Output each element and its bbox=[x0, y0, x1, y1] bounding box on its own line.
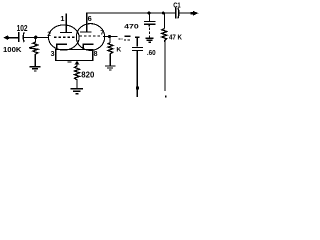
V2 cathode bbox=[83, 44, 93, 49]
svg-text:2: 2 bbox=[47, 31, 51, 38]
node rail / 47K bbox=[162, 12, 165, 15]
wire input to coupling cap bbox=[7, 37, 18, 39]
node input junction bbox=[34, 36, 37, 39]
node on bottom wire bbox=[136, 86, 139, 89]
capacitor C-in (plates) bbox=[19, 32, 25, 42]
svg-text:47 K: 47 K bbox=[169, 34, 182, 41]
svg-text:.60: .60 bbox=[147, 48, 156, 57]
wire C1 to output bbox=[179, 12, 193, 14]
resistor 47K bbox=[162, 29, 167, 43]
end dot bbox=[165, 96, 167, 98]
svg-text:6: 6 bbox=[88, 14, 92, 23]
ground (input) bbox=[30, 67, 41, 71]
wire cap down to bottom bbox=[136, 51, 138, 97]
node cathode stem bbox=[75, 61, 80, 64]
capacitor plates bbox=[132, 47, 143, 50]
bypass cap lead bbox=[148, 13, 150, 21]
wire resistor to ground bbox=[34, 56, 36, 66]
input terminal arrow bbox=[3, 35, 9, 40]
V1 grid (dashed) bbox=[54, 36, 75, 38]
bypass cap plates bbox=[144, 21, 155, 24]
svg-text:8: 8 bbox=[94, 51, 98, 58]
wire segment to cap bbox=[125, 35, 131, 37]
node grid network bbox=[108, 35, 111, 38]
svg-text:1: 1 bbox=[60, 14, 64, 23]
cathode box bbox=[56, 49, 93, 60]
V1 cathode bbox=[57, 44, 67, 49]
svg-text:K: K bbox=[116, 47, 121, 54]
B+ rail bbox=[86, 12, 175, 14]
svg-text:102: 102 bbox=[17, 23, 28, 33]
capacitor C1 (output) bbox=[176, 8, 179, 19]
ground (bypass cap) bbox=[145, 38, 153, 42]
output arrow bbox=[191, 11, 199, 16]
svg-text:100K: 100K bbox=[3, 45, 22, 54]
svg-text:3: 3 bbox=[51, 51, 55, 58]
tube V2 envelope bbox=[76, 24, 104, 51]
wire cap to grid V1 bbox=[24, 36, 49, 38]
bypass cap lower lead (broken) bbox=[148, 24, 150, 26]
ground (grid network) bbox=[105, 66, 115, 70]
V1 plate bbox=[60, 13, 72, 32]
resistor 820 bbox=[75, 66, 80, 81]
node rail / bypass cap bbox=[147, 11, 150, 14]
resistor (grid network) bbox=[108, 38, 113, 56]
svg-text:820: 820 bbox=[81, 71, 94, 80]
V2 plate bbox=[80, 13, 92, 32]
svg-text:C1: C1 bbox=[173, 0, 181, 9]
V2 grid (dashed) bbox=[80, 35, 103, 37]
capacitor (grid network) top tick bbox=[135, 36, 139, 38]
wire to ground bbox=[109, 55, 111, 65]
svg-text:470: 470 bbox=[124, 23, 139, 30]
wire 47K to bottom bbox=[164, 42, 166, 92]
resistor 100K (grid) bbox=[29, 39, 38, 58]
svg-text:7: 7 bbox=[100, 30, 104, 37]
wire stem to resistor bbox=[76, 61, 78, 67]
label 100 (smudged dashes) bbox=[118, 39, 130, 40]
wire 820 to ground bbox=[76, 81, 78, 89]
wire V2 grid to junction bbox=[103, 35, 118, 37]
capacitor lead bbox=[136, 37, 138, 46]
ground (820) bbox=[71, 89, 84, 94]
tick under box bbox=[68, 61, 72, 63]
resistor 47K lead bbox=[163, 13, 165, 29]
tube V1 envelope bbox=[49, 25, 80, 50]
